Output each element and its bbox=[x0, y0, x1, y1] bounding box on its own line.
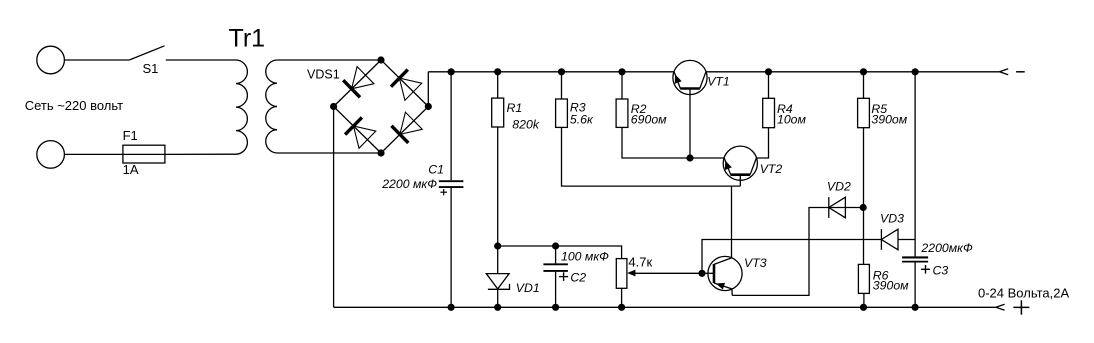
bottom rail (plus) bbox=[334, 306, 996, 308]
output terminal plus (bottom) bbox=[996, 304, 1005, 310]
node R2 top rail bbox=[618, 68, 625, 75]
node R6 bottom rail bbox=[860, 304, 867, 311]
VT3 base wire bbox=[702, 272, 714, 274]
wire R5 bottom to R6 bbox=[863, 128, 865, 265]
wire VT3 collector up bbox=[731, 186, 733, 258]
wire bridge right node to top rail bbox=[427, 72, 429, 107]
svg-text:VD2: VD2 bbox=[827, 180, 851, 194]
svg-text:390ом: 390ом bbox=[871, 112, 907, 126]
VT2 emitter diagonal bbox=[724, 158, 731, 175]
wire C2 bottom bbox=[555, 272, 557, 308]
bridge diode VDS1-b (top-right) bbox=[391, 70, 422, 101]
top rail (minus) left of VT1 bbox=[428, 71, 674, 73]
wire bridge left node down bbox=[333, 107, 335, 308]
svg-text:390ом: 390ом bbox=[873, 278, 909, 292]
wire C2 top bbox=[555, 246, 557, 263]
wire VD1 bottom bbox=[497, 289, 499, 307]
wire VT2 base down bbox=[739, 175, 741, 186]
pot wiper arrow bbox=[627, 270, 635, 277]
bridge edge T-L bbox=[334, 60, 381, 107]
wire node to VT2 emitter bbox=[690, 157, 724, 159]
bridge edge L-B bbox=[334, 107, 381, 154]
wire C3 top bbox=[914, 72, 916, 257]
svg-text:R1: R1 bbox=[507, 101, 523, 115]
svg-text:100 мкФ: 100 мкФ bbox=[561, 250, 609, 264]
transistor VT1 circle bbox=[673, 60, 707, 94]
top rail (minus) right of VT1 bbox=[706, 71, 1000, 73]
node R1 top rail bbox=[494, 68, 501, 75]
node R3 top rail bbox=[558, 68, 565, 75]
svg-text:4.7к: 4.7к bbox=[628, 255, 652, 270]
node C3 bottom rail bbox=[912, 304, 919, 311]
VT3 emitter arrow bbox=[715, 280, 725, 289]
VT2 collector diagonal bbox=[750, 158, 756, 175]
node C1 top rail bbox=[448, 68, 455, 75]
bridge diode VDS1-c (bottom-left) bbox=[345, 117, 376, 148]
resistor R6 bbox=[858, 264, 869, 293]
diode VD3 bbox=[881, 229, 898, 250]
svg-text:VD1: VD1 bbox=[516, 281, 540, 295]
bridge edge B-R bbox=[381, 107, 428, 154]
VT1 base bar bbox=[680, 87, 700, 90]
svg-text:2200мкФ: 2200мкФ bbox=[920, 241, 973, 255]
diode VD2 bbox=[829, 197, 846, 218]
wire through fuse bbox=[123, 153, 165, 155]
svg-text:C2: C2 bbox=[570, 271, 586, 285]
VT3 base bar bbox=[713, 264, 716, 283]
svg-text:Tr1: Tr1 bbox=[229, 25, 266, 53]
resistor R1 bbox=[492, 98, 504, 127]
input terminal (line) bottom bbox=[37, 141, 65, 169]
wire secondary bottom to bridge bbox=[277, 152, 381, 154]
node C3 top rail bbox=[912, 68, 919, 75]
svg-text:5.6к: 5.6к bbox=[570, 113, 594, 127]
resistor R2 bbox=[616, 99, 628, 127]
transformer Tr1 primary winding bbox=[236, 60, 247, 154]
resistor R3 bbox=[556, 99, 568, 127]
resistor R4 bbox=[763, 98, 775, 127]
svg-text:VD3: VD3 bbox=[880, 211, 904, 225]
node VD1 bottom rail bbox=[494, 304, 501, 311]
svg-text:S1: S1 bbox=[143, 61, 159, 76]
svg-text:1A: 1A bbox=[123, 162, 139, 177]
C1 plus sign bbox=[440, 191, 447, 193]
node VT3 base bbox=[698, 270, 705, 277]
wire terminal to fuse bbox=[64, 153, 123, 155]
bridge diode VDS1-d (bottom-right) bbox=[391, 112, 422, 143]
node VD2 junction bbox=[860, 204, 867, 211]
wire R2 top bbox=[621, 72, 623, 99]
plus sign bbox=[1013, 306, 1029, 308]
wire secondary top to bridge bbox=[277, 59, 381, 61]
VT1 emitter arrow bbox=[672, 73, 682, 84]
node bridge left bbox=[330, 103, 337, 110]
zener diode VD1 bbox=[486, 274, 509, 289]
wire VT2 collector to R4 bbox=[756, 128, 768, 158]
wire VT3 emitter down bbox=[731, 289, 733, 296]
wire VD1 top bbox=[497, 246, 499, 274]
wire terminal to switch bbox=[64, 59, 129, 61]
VT2 emitter arrow bbox=[722, 159, 732, 170]
svg-text:C1: C1 bbox=[428, 163, 444, 177]
wire R1 bottom bbox=[497, 127, 499, 246]
VT3 emitter diagonal bbox=[714, 283, 732, 289]
wire VT3 base node up and right to VD3 bbox=[702, 240, 881, 274]
bridge edge T-R bbox=[381, 60, 428, 107]
transformer Tr1 secondary winding bbox=[266, 60, 277, 153]
svg-text:2200 мкФ: 2200 мкФ bbox=[381, 177, 437, 191]
svg-text:820k: 820k bbox=[512, 118, 540, 132]
svg-text:10ом: 10ом bbox=[777, 112, 807, 126]
svg-text:0-24 Вольта,2А: 0-24 Вольта,2А bbox=[978, 285, 1069, 300]
wire fuse to transformer primary bbox=[165, 153, 236, 155]
transistor VT2 circle bbox=[723, 146, 757, 180]
node bridge top bbox=[377, 56, 384, 63]
node C2 junction bbox=[552, 242, 559, 249]
svg-text:Сеть ~220 вольт: Сеть ~220 вольт bbox=[25, 98, 123, 113]
wire R1 top bbox=[497, 72, 499, 98]
wire VD2 left and down to VT3 emitter bbox=[732, 208, 863, 296]
switch S1 blade bbox=[129, 46, 164, 60]
transistor VT3 circle bbox=[708, 256, 742, 290]
svg-text:C3: C3 bbox=[933, 264, 949, 278]
wire R5 top bbox=[863, 72, 865, 99]
node R5 top rail bbox=[860, 68, 867, 75]
node VT1 base / R2 / VT2 emitter bbox=[686, 154, 693, 161]
wire mid (R1 node to pot top) bbox=[498, 246, 622, 259]
node R4 top rail bbox=[765, 68, 772, 75]
capacitor C1 bbox=[439, 180, 464, 182]
wire R4 top bbox=[768, 72, 770, 99]
wire R3 top bbox=[561, 72, 563, 99]
wire R3 bottom to VT2 base bbox=[562, 127, 741, 186]
wire R6 bottom bbox=[863, 293, 865, 307]
svg-text:F1: F1 bbox=[123, 128, 138, 143]
C3 plus sign bbox=[921, 268, 930, 270]
node R1-VD1 junction bbox=[494, 242, 501, 249]
svg-text:VT1: VT1 bbox=[707, 75, 730, 89]
svg-text:VT2: VT2 bbox=[760, 162, 783, 176]
capacitor C2 bbox=[543, 263, 568, 265]
node bridge right bbox=[425, 103, 432, 110]
VT2 base bar bbox=[731, 173, 751, 176]
svg-text:VT3: VT3 bbox=[744, 256, 767, 270]
fuse F1 bbox=[123, 145, 165, 163]
wire pot bottom bbox=[621, 288, 623, 307]
node pot bottom rail bbox=[618, 304, 625, 311]
wire C1 bottom bbox=[450, 188, 452, 307]
wire C1 top bbox=[450, 72, 452, 180]
wire S1 to transformer primary bbox=[166, 59, 236, 61]
VT1 emitter diagonal bbox=[674, 72, 680, 89]
VT3 collector diagonal bbox=[714, 258, 732, 265]
input terminal (line) top bbox=[37, 46, 65, 74]
minus sign bbox=[1016, 71, 1025, 73]
wire C3 bottom bbox=[914, 263, 916, 308]
node C1 bottom rail bbox=[448, 304, 455, 311]
wire wiper to VT3 base bbox=[632, 272, 702, 274]
wire VD3 to output rail bbox=[898, 239, 915, 241]
VT1 collector diagonal bbox=[700, 72, 706, 89]
output terminal minus (top) bbox=[1000, 69, 1009, 75]
node C2 bottom rail bbox=[552, 304, 559, 311]
bridge diode VDS1-a (top-left) bbox=[343, 67, 374, 98]
node bridge bottom bbox=[377, 149, 384, 156]
resistor R5 bbox=[858, 98, 870, 127]
wire R2 bottom to emitter node bbox=[622, 127, 690, 158]
svg-text:VDS1: VDS1 bbox=[307, 68, 340, 82]
potentiometer 4.7к body bbox=[616, 259, 627, 289]
capacitor C3 bbox=[902, 256, 928, 258]
wire VT1 base down bbox=[689, 89, 691, 159]
C2 plus sign bbox=[559, 276, 568, 278]
svg-text:690ом: 690ом bbox=[631, 112, 667, 126]
